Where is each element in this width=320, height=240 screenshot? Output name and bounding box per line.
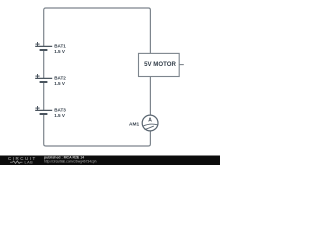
- wire BAT2-BAT3: [43, 82, 45, 110]
- battery BAT3 symbol (plates + polarity plus): [35, 106, 52, 114]
- battery BAT1 symbol (plates + polarity plus): [35, 42, 52, 50]
- wire top: left rail to right rail: [44, 8, 151, 53]
- BAT3 designator and value label 1.5 V: [54, 108, 66, 118]
- svg-text:http://circuitlab.com/c/bwg4b7: http://circuitlab.com/c/bwg4b734cph: [44, 159, 97, 163]
- svg-text:1.5 V: 1.5 V: [54, 81, 66, 86]
- ammeter AM1: [142, 115, 158, 131]
- ammeter needle: [145, 126, 154, 130]
- svg-text:1.5 V: 1.5 V: [54, 49, 66, 54]
- svg-text:LAB: LAB: [25, 161, 34, 165]
- BAT1 designator and value label 1.5 V: [54, 44, 66, 54]
- svg-text:AM1: AM1: [129, 122, 139, 128]
- motor M1 box: [139, 53, 180, 76]
- footer bar: [0, 156, 220, 166]
- wire bottom: from BAT3 to ammeter bottom: [44, 114, 151, 146]
- svg-text:1.5 V: 1.5 V: [54, 113, 66, 118]
- motor right stub: [179, 64, 184, 66]
- wire motor to ammeter: [149, 77, 151, 116]
- svg-text:5V MOTOR: 5V MOTOR: [144, 61, 176, 68]
- BAT2 designator and value label 1.5 V: [54, 76, 66, 86]
- battery BAT2 symbol (plates + polarity plus): [35, 74, 52, 82]
- svg-text:A: A: [148, 117, 152, 123]
- wire BAT1-BAT2: [43, 50, 45, 78]
- ammeter scale arc: [143, 124, 158, 126]
